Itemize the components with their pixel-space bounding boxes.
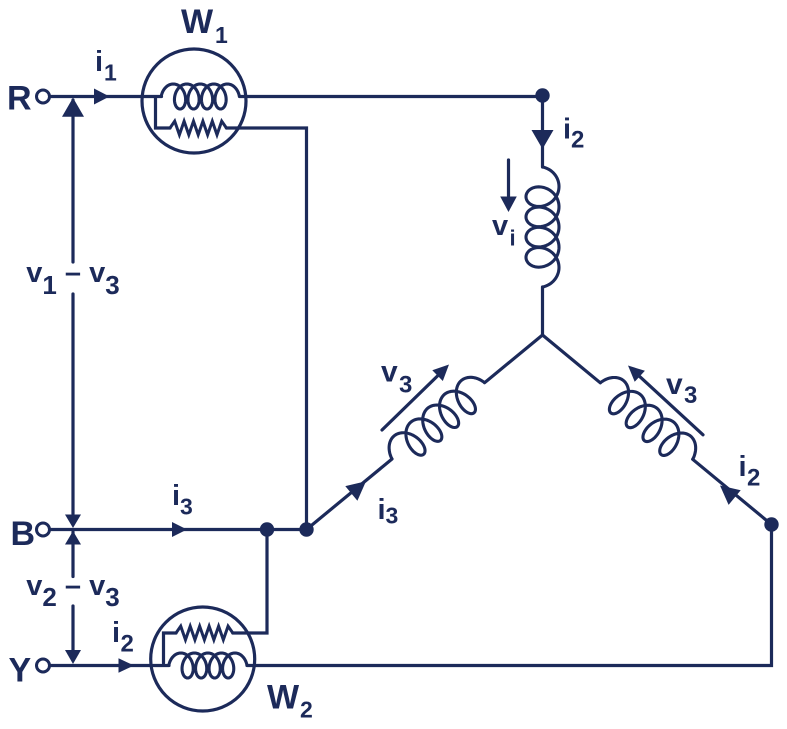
svg-text:2: 2 (300, 697, 313, 723)
svg-text:i: i (563, 114, 571, 146)
svg-text:2: 2 (121, 631, 134, 658)
svg-text:2: 2 (747, 465, 760, 492)
svg-text:i: i (510, 226, 516, 251)
svg-text:3: 3 (386, 503, 399, 529)
svg-text:v: v (666, 368, 683, 401)
svg-text:W: W (181, 3, 214, 41)
svg-text:2: 2 (571, 127, 584, 154)
svg-text:3: 3 (399, 372, 412, 399)
svg-text:W: W (267, 679, 300, 717)
svg-text:i: i (112, 617, 120, 649)
svg-text:1: 1 (104, 60, 117, 86)
svg-text:i: i (172, 480, 180, 512)
svg-text:R: R (7, 80, 32, 118)
svg-text:3: 3 (684, 382, 697, 409)
svg-text:3: 3 (180, 494, 193, 520)
svg-text:v: v (381, 356, 398, 389)
svg-text:Y: Y (9, 652, 32, 690)
svg-text:v: v (492, 210, 508, 242)
svg-text:i: i (378, 494, 386, 526)
svg-text:i: i (739, 451, 747, 483)
svg-text:i: i (95, 46, 103, 78)
svg-text:B: B (11, 515, 36, 553)
svg-text:1: 1 (215, 22, 228, 48)
